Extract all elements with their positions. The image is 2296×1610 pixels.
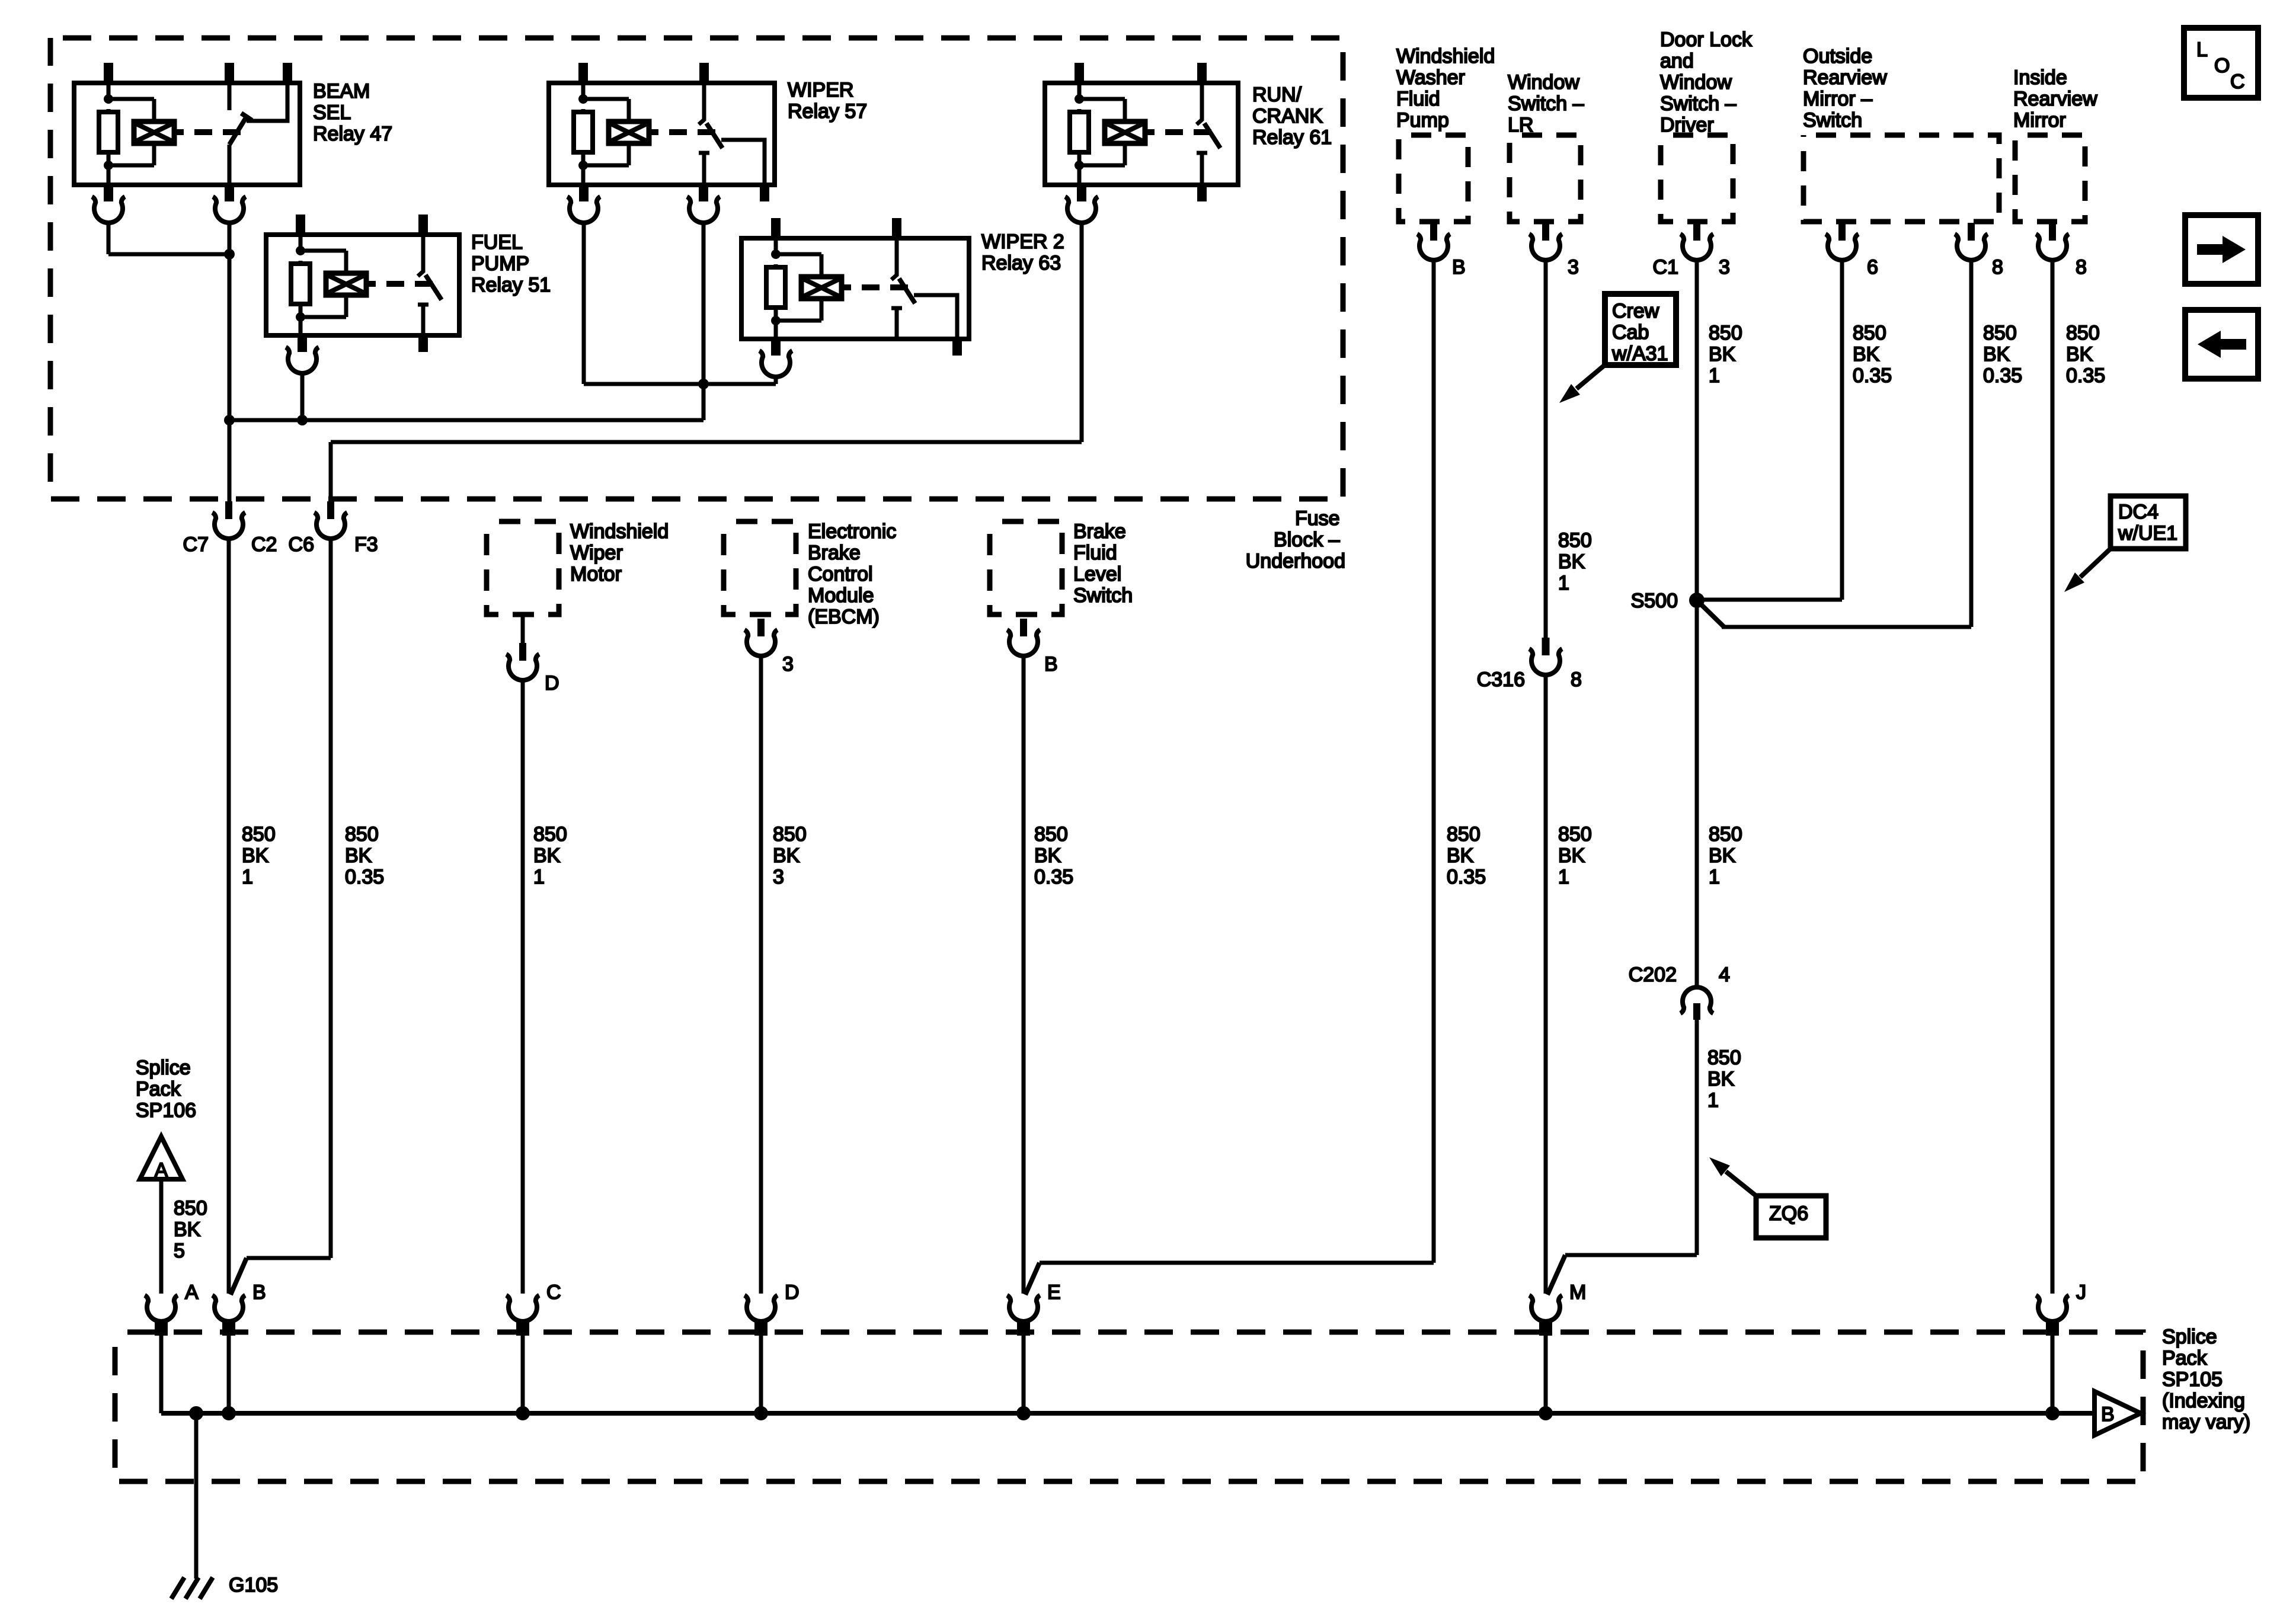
- svg-text:6: 6: [1867, 256, 1878, 279]
- svg-text:C1: C1: [1653, 256, 1678, 279]
- svg-text:C: C: [2230, 71, 2245, 93]
- svg-text:ZQ6: ZQ6: [1769, 1202, 1808, 1225]
- svg-text:C: C: [546, 1281, 561, 1304]
- svg-text:D: D: [785, 1281, 800, 1304]
- svg-text:M: M: [1569, 1281, 1586, 1304]
- svg-text:C2: C2: [251, 533, 277, 556]
- svg-text:J: J: [2076, 1281, 2086, 1304]
- svg-text:3: 3: [782, 653, 794, 676]
- svg-text:E: E: [1047, 1281, 1061, 1304]
- svg-text:S500: S500: [1631, 590, 1678, 612]
- svg-text:G105: G105: [229, 1574, 278, 1596]
- svg-text:Brake Fluid Level Switch: Brake Fluid Level Switch: [1073, 520, 1133, 607]
- svg-text:B: B: [1452, 256, 1466, 279]
- svg-text:O: O: [2214, 55, 2230, 77]
- svg-text:F3: F3: [354, 533, 378, 556]
- svg-text:B: B: [252, 1281, 266, 1304]
- svg-text:A: A: [155, 1159, 168, 1182]
- svg-text:C316: C316: [1477, 668, 1525, 691]
- svg-text:D: D: [545, 672, 559, 694]
- svg-text:3: 3: [1719, 256, 1730, 279]
- svg-text:L: L: [2196, 39, 2208, 61]
- svg-text:8: 8: [1992, 256, 2003, 279]
- svg-text:A: A: [185, 1281, 199, 1304]
- svg-text:8: 8: [1571, 668, 1582, 691]
- svg-text:C7: C7: [183, 533, 209, 556]
- svg-text:3: 3: [1568, 256, 1579, 279]
- svg-text:C6: C6: [289, 533, 314, 556]
- svg-text:C202: C202: [1629, 964, 1677, 986]
- svg-text:B: B: [2101, 1403, 2115, 1426]
- svg-text:WIPER 2 Relay 63: WIPER 2 Relay 63: [981, 231, 1070, 274]
- svg-text:WIPER Relay 57: WIPER Relay 57: [788, 79, 867, 123]
- svg-text:4: 4: [1719, 964, 1730, 986]
- svg-text:B: B: [1044, 653, 1058, 676]
- svg-text:8: 8: [2076, 256, 2087, 279]
